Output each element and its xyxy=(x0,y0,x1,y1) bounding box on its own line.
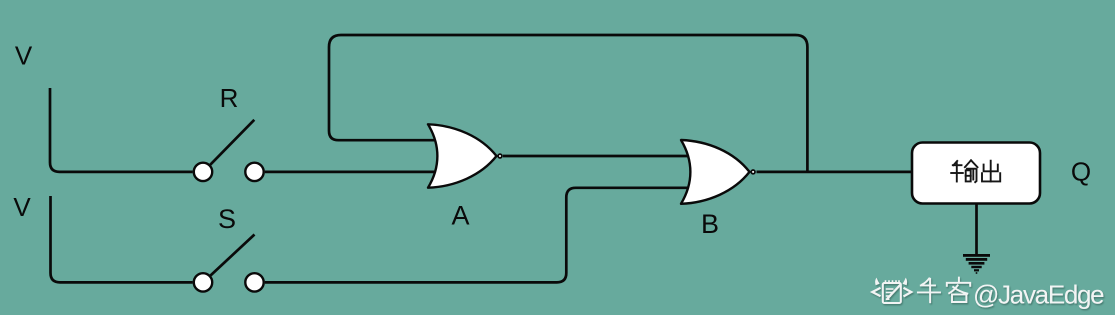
svg-text:B: B xyxy=(701,209,719,239)
svg-text:R: R xyxy=(220,83,239,113)
svg-text:@JavaEdge: @JavaEdge xyxy=(973,280,1104,310)
svg-text:V: V xyxy=(15,41,33,71)
svg-text:A: A xyxy=(451,201,469,231)
svg-text:Q: Q xyxy=(1071,157,1091,187)
svg-text:S: S xyxy=(218,204,236,234)
svg-text:V: V xyxy=(13,192,31,222)
